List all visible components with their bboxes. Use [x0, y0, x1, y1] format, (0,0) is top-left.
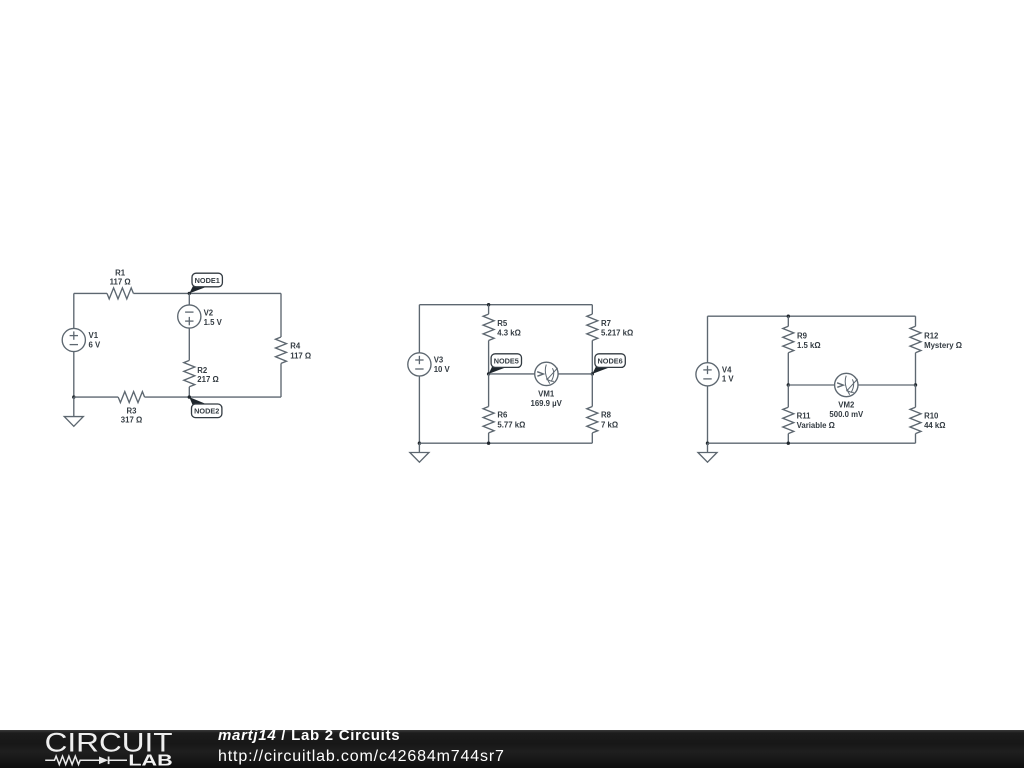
svg-text:NODE1: NODE1 [195, 276, 220, 285]
node NODE2 callout [189, 397, 222, 418]
wire: node to ground (circuit 2) [418, 443, 420, 452]
svg-text:R9: R9 [797, 332, 808, 341]
svg-text:1 V: 1 V [722, 375, 735, 384]
svg-text:Variable Ω: Variable Ω [797, 421, 835, 430]
svg-text:NODE6: NODE6 [598, 357, 623, 366]
svg-text:R10: R10 [924, 412, 939, 421]
svg-text:117 Ω: 117 Ω [290, 351, 311, 360]
resistor R8 [587, 407, 598, 433]
svg-text:VM2: VM2 [838, 401, 855, 410]
wire: top rail to R9 [787, 316, 789, 326]
junction: NODE6 [591, 372, 594, 375]
voltage source V1 [62, 328, 85, 351]
CircuitLab logo [0, 729, 200, 768]
svg-text:R6: R6 [497, 411, 508, 420]
junction: bottom-left node (circuit 2) [418, 442, 421, 445]
resistor R9 [783, 326, 794, 352]
wire: R11 bottom to bottom rail [787, 434, 789, 444]
svg-text:R5: R5 [497, 319, 508, 328]
resistor R7 [587, 314, 598, 340]
voltmeter VM2 [835, 373, 858, 396]
resistor R1 [107, 288, 133, 299]
wire: NODE5 to VM1 left [489, 373, 535, 375]
wire: top rail (circuit 2) [419, 304, 592, 306]
logo resistor glyph [45, 756, 99, 764]
wire: top rail (circuit 3) [708, 315, 916, 317]
wire: V3 bottom to bottom rail [418, 376, 420, 443]
resistor R6 [483, 407, 494, 433]
resistor R12 [910, 326, 921, 352]
svg-text:117 Ω: 117 Ω [110, 278, 131, 287]
junction: NODE1 [188, 292, 191, 295]
footer caption line 1: username / title [218, 726, 400, 746]
svg-text:V3: V3 [434, 355, 444, 364]
wire: node to R3 left [74, 396, 118, 398]
svg-text:VM1: VM1 [538, 389, 555, 398]
svg-text:V2: V2 [204, 308, 214, 317]
ground (circuit 1) [64, 417, 83, 427]
svg-text:169.9 µV: 169.9 µV [531, 399, 563, 408]
wire: top rail to R12 [915, 316, 917, 326]
wire: R6 bottom to bottom rail [488, 433, 490, 443]
wire: VM1 right to NODE6 [558, 373, 592, 375]
svg-text:R12: R12 [924, 332, 939, 341]
voltage source V4 [696, 363, 719, 386]
wire: R4 bottom to bottom-right corner [280, 363, 282, 397]
junction: NODE5 [487, 372, 490, 375]
svg-text:R8: R8 [601, 411, 612, 420]
svg-text:500.0 mV: 500.0 mV [829, 410, 864, 419]
svg-text:V4: V4 [722, 365, 732, 374]
junction: bottom of middle branch [787, 442, 790, 445]
svg-text:10 V: 10 V [434, 365, 451, 374]
voltmeter VM1 [535, 362, 558, 385]
voltage source V3 [408, 353, 431, 376]
wire: V4 bottom to bottom rail [707, 386, 709, 443]
ground (circuit 3) [698, 453, 717, 463]
resistor R5 [483, 314, 494, 340]
wire: left mid node to VM2 [788, 384, 834, 386]
svg-text:1.5 V: 1.5 V [204, 318, 223, 327]
node NODE6 callout [592, 354, 625, 374]
wire: top-left down to V4 [707, 316, 709, 363]
junction: right mid node (circuit 3) [914, 383, 917, 386]
wire: mid node to R11 [787, 385, 789, 407]
svg-text:LAB: LAB [128, 752, 172, 768]
resistor R10 [910, 407, 921, 433]
wire: R1 right to top-right corner [133, 292, 281, 294]
wire: R8 bottom to bottom rail [591, 433, 593, 443]
wire: node to ground (circuit 3) [707, 443, 709, 452]
junction: left mid node (circuit 3) [787, 383, 790, 386]
svg-text:R4: R4 [290, 341, 301, 350]
wire: V2 bottom to R2 top [188, 328, 190, 360]
resistor R11 [783, 407, 794, 433]
ground (circuit 2) [410, 453, 429, 463]
junction: top of left bridge branch [487, 303, 490, 306]
wire: top rail to R5 [488, 305, 490, 314]
wire: NODE1 down to V2 [188, 293, 190, 305]
wire: R9 bottom to mid node [787, 353, 789, 385]
voltage source V2 [178, 305, 201, 328]
wire: top-right corner down to R4 [280, 293, 282, 337]
wire: VM2 right to right mid node [858, 384, 916, 386]
footer caption line 2: url [218, 747, 505, 767]
wire: R2 bottom to NODE2 [188, 387, 190, 397]
wire: top-left corner down to V1 [73, 293, 75, 328]
resistor R4 [276, 337, 287, 363]
resistor R2 [184, 360, 195, 386]
wire: R12 bottom to right mid node [915, 353, 917, 385]
node NODE5 callout [489, 354, 522, 374]
svg-text:R2: R2 [197, 366, 208, 375]
resistor R3 [118, 392, 144, 403]
svg-text:44 kΩ: 44 kΩ [924, 421, 945, 430]
wire: top-left down to V3 [418, 305, 420, 353]
svg-text:R11: R11 [797, 412, 812, 421]
junction: bottom-left node (circuit 3) [706, 442, 709, 445]
svg-text:5.217 kΩ: 5.217 kΩ [601, 329, 633, 338]
svg-text:4.3 kΩ: 4.3 kΩ [497, 329, 521, 338]
wire: bottom rail (circuit 2) [419, 442, 592, 444]
junction: bottom of left bridge branch [487, 442, 490, 445]
svg-text:NODE5: NODE5 [494, 357, 519, 366]
svg-text:V1: V1 [89, 331, 99, 340]
wire: V1 bottom to ground node [73, 352, 75, 398]
wire: R7 bottom to NODE6 [591, 341, 593, 374]
junction: top of middle branch [787, 315, 790, 318]
node NODE1 callout [189, 273, 222, 293]
wire: top rail to R7 [591, 305, 593, 314]
svg-text:R1: R1 [115, 268, 126, 277]
wire: mid node to R10 [915, 385, 917, 407]
svg-text:217 Ω: 217 Ω [197, 375, 218, 384]
wire: bottom rail (circuit 3) [708, 442, 916, 444]
svg-text:7 kΩ: 7 kΩ [601, 420, 618, 429]
junction: bottom-left node [72, 395, 75, 398]
wire: NODE6 to R8 [591, 374, 593, 407]
svg-text:R3: R3 [127, 406, 138, 415]
wire: R3 right to bottom-right corner [145, 396, 281, 398]
junction: NODE2 [188, 395, 191, 398]
svg-text:1.5 kΩ: 1.5 kΩ [797, 341, 821, 350]
svg-text:NODE2: NODE2 [194, 407, 219, 416]
svg-text:Mystery Ω: Mystery Ω [924, 341, 962, 350]
svg-text:6 V: 6 V [89, 340, 102, 349]
wire: V1 top to R1 left [74, 292, 107, 294]
logo diode glyph [99, 757, 108, 765]
svg-text:R7: R7 [601, 319, 611, 328]
wire: R5 bottom to NODE5 [488, 341, 490, 374]
svg-text:317 Ω: 317 Ω [121, 416, 142, 425]
footer bar [0, 730, 1024, 768]
wire: R10 bottom to bottom rail [915, 434, 917, 444]
wire: node to ground [73, 397, 75, 417]
wire: NODE5 to R6 [488, 374, 490, 407]
svg-text:5.77 kΩ: 5.77 kΩ [497, 420, 525, 429]
